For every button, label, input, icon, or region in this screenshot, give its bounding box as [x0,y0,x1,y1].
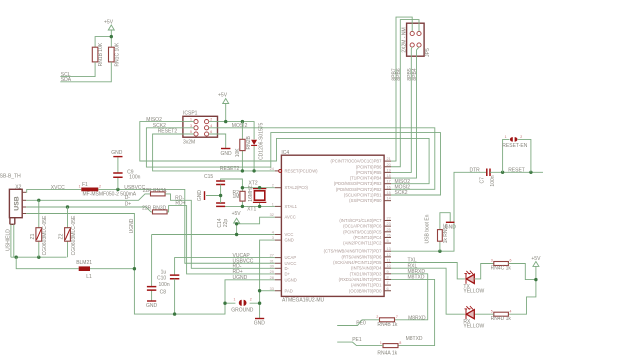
svg-text:16MHZ: 16MHZ [248,185,254,201]
varistor Z1 CG0603MLC-05E [30,200,48,257]
svg-text:22: 22 [387,217,391,221]
svg-text:14: 14 [387,197,391,201]
junction PAD/GND vertical [258,289,261,292]
fuse F1 MF-MSMF050-2 [79,182,137,198]
pin AVCC 32 [270,213,296,220]
pin PB4 18 [350,174,391,181]
svg-text:D-: D- [125,195,131,201]
svg-text:3x2M: 3x2M [183,140,195,146]
junction VCC at +5V stem [235,233,238,236]
pin PAD 33 [270,287,293,294]
pin PB6 20 [356,163,391,170]
svg-text:(T1/PCINT4)PB4: (T1/PCINT4)PB4 [350,176,382,181]
svg-text:GROUND: GROUND [231,308,254,314]
svg-text:1M: 1M [233,194,240,200]
svg-text:(INT4/ICP1/CLK0)PC7: (INT4/ICP1/CLK0)PC7 [339,218,382,223]
svg-text:YELLOW: YELLOW [463,324,484,330]
wire shield rail [11,256,67,258]
svg-text:19: 19 [387,168,391,172]
junction UGND at jumper [223,302,226,305]
ground (below ICSP) [221,149,233,157]
+5V supply symbol (AVCC/VCC) [232,211,242,234]
svg-text:+5V: +5V [104,20,114,26]
svg-text:CG0603MLC-05E: CG0603MLC-05E [71,215,77,255]
svg-text:(RXD1/AIN1/INT2)PD2: (RXD1/AIN1/INT2)PD2 [339,277,382,282]
svg-text:JP5: JP5 [425,48,431,57]
svg-text:8PB4: 8PB4 [412,68,418,80]
svg-text:12: 12 [387,253,391,257]
svg-text:PAD: PAD [285,288,293,293]
junction caps GND [219,194,222,197]
resistor RN4D 1k [491,309,512,322]
svg-text:2: 2 [376,315,378,319]
svg-text:30: 30 [270,264,274,268]
resistor R2 1M [233,188,246,207]
wire TX led to RN4C [474,264,494,279]
wire 8PB7 (JP5 to IC PB7) [391,17,412,161]
junction XTAL1 at R2 [241,205,244,208]
svg-text:C15: C15 [204,174,213,180]
junction +5V at arrow [224,120,227,123]
wire M8TXD (IC PD2 to RN4A) [391,279,435,345]
svg-text:15: 15 [387,191,391,195]
wire RESET (C7 to RESET-EN legs) [490,168,543,174]
svg-text:(AIN2/PCINT11)PC2: (AIN2/PCINT11)PC2 [343,241,382,246]
diode CD1206-S01575 [251,122,264,170]
svg-text:10: 10 [387,264,391,268]
svg-text:RN1B 10K: RN1B 10K [98,42,104,66]
svg-text:+5V: +5V [218,92,228,98]
svg-text:DTR: DTR [470,168,481,174]
varistor Z2 CG0603MLC-05E [59,207,77,257]
resistor RN5E 1k (HWB pulldown) [438,213,451,252]
svg-text:UGND: UGND [129,218,135,233]
svg-text:VUCAP: VUCAP [233,253,251,259]
svg-text:RESET-EN: RESET-EN [502,143,527,149]
svg-text:(PCINT6)PB6: (PCINT6)PB6 [356,164,382,169]
wire cap midpoint to GND [206,185,221,204]
svg-text:13: 13 [387,247,391,251]
junction USBVCC at C9 [116,188,119,191]
capacitor C7 100n (DTR-RESET) [480,169,496,187]
svg-text:5: 5 [491,309,493,313]
capacitor C8 100n (VCC decoupling) [147,235,170,302]
junction RESET2 at diode [252,169,255,172]
node PE0 [337,320,379,327]
junction +5V node [110,35,113,38]
svg-text:CD1206-S01575: CD1206-S01575 [258,122,264,159]
svg-text:33: 33 [270,287,274,291]
svg-text:GND: GND [146,303,158,309]
wire UGND (USB pin4 down, rail, up to IC pin28) [22,214,275,315]
wire D- (USB pin2 to RN3A) [22,194,150,201]
svg-text:6: 6 [210,130,212,134]
wire SCK2 (ICSP pin3 west, down, east to over-IC row) [146,123,440,195]
svg-text:GND: GND [197,190,203,202]
svg-text:29: 29 [270,270,274,274]
resistor RN1C 10K [109,42,121,67]
svg-text:CG0603MLC-05E: CG0603MLC-05E [42,215,48,255]
svg-text:4: 4 [272,231,274,235]
junction RESET at right leg [529,171,532,174]
pin VCC 4 [272,231,294,238]
resistor RN4A 1k [377,341,401,357]
svg-text:(OC1A/PCINT8)PC6: (OC1A/PCINT8)PC6 [343,224,382,229]
svg-text:3: 3 [491,259,493,263]
svg-text:MOSI2: MOSI2 [232,123,248,129]
svg-text:F1: F1 [82,182,88,188]
svg-text:RN4D 1k: RN4D 1k [491,316,512,322]
svg-text:+5V: +5V [531,256,541,262]
svg-text:D+: D+ [125,202,132,208]
svg-text:USB boot En: USB boot En [425,214,431,243]
wire XTAL1 net (IC pin1 to crystal / R2 / C14) [221,205,275,207]
svg-text:1: 1 [190,118,192,122]
svg-text:100n: 100n [159,282,170,288]
svg-text:25: 25 [387,228,391,232]
svg-text:SDA: SDA [61,77,72,83]
svg-text:2X2M - NM: 2X2M - NM [401,27,407,52]
junction XTAL2 at crystal [258,186,261,189]
wire GND pin3 down to ground bar [260,240,275,318]
junction +5V at RN2B [241,120,244,123]
svg-text:23: 23 [387,222,391,226]
resistor RN4B 1k [376,315,398,328]
resistor RN1B 10K [92,42,104,66]
svg-text:26: 26 [387,233,391,237]
svg-text:L1: L1 [86,274,92,280]
svg-text:2: 2 [99,185,101,189]
wire PAD (pin33) [260,290,275,292]
svg-text:GND: GND [221,151,233,157]
wire RN4C to +5V stem [508,264,536,280]
svg-text:RD+: RD+ [175,201,185,207]
pin PD1 7 [351,281,391,288]
pin PD2 8 / net M8TXD [339,275,425,282]
svg-text:(PCINT5)PB5: (PCINT5)PB5 [356,170,382,175]
capacitor C15 22p [204,174,225,185]
svg-text:22p: 22p [223,219,229,228]
svg-text:5: 5 [190,130,192,134]
svg-text:SCK2: SCK2 [395,190,408,196]
pin RESET(PC1/DW) 24 [270,167,318,174]
ground (below C8) [146,301,158,309]
svg-text:8PB6: 8PB6 [396,68,402,80]
svg-text:11: 11 [387,259,391,263]
svg-text:C10: C10 [157,275,166,281]
svg-text:1: 1 [234,298,236,302]
node PE1 [337,337,383,346]
solder jumper GROUND [225,298,260,314]
svg-text:6: 6 [387,287,389,291]
svg-text:RN1C 10K: RN1C 10K [114,42,120,67]
pin PD4 10 / net RXL [351,263,417,270]
pin XTAL1 1 [272,202,298,209]
junction UGND at L1 [133,267,136,270]
pin PC2 5 [343,239,391,246]
svg-text:18: 18 [387,174,391,178]
svg-text:BLM21: BLM21 [76,260,92,266]
pin PD6 12 [342,253,391,260]
svg-text:31: 31 [270,259,274,263]
svg-text:XVCC: XVCC [51,185,65,191]
svg-text:GND: GND [285,238,294,243]
pin PC7 22 [339,217,391,224]
svg-text:RESET: RESET [508,168,525,174]
ground (crystal caps, rotated) [197,190,204,202]
pin PB7 21 [331,157,391,164]
wire XTAL2 net (IC pin2 to crystal / R2 / C15) [221,179,275,188]
svg-text:24: 24 [270,167,274,171]
svg-text:USB: USB [13,196,20,210]
svg-text:(CTS/HWB/AIN6/TO/INT7)PD7: (CTS/HWB/AIN6/TO/INT7)PD7 [324,249,383,254]
wire USBVCC (F1 to corner, down to IC UVCC) [98,185,274,265]
svg-text:21: 21 [387,157,391,161]
pin UVCC 31 [270,259,297,266]
capacitor C14 22p [216,203,229,228]
node SDA [60,62,111,83]
svg-text:(SCLK/PCINT1)PB1: (SCLK/PCINT1)PB1 [344,193,382,198]
wire D+ (USB pin3 to RN3D) [22,202,152,212]
pin D+ 29 [270,270,291,277]
svg-text:2: 2 [210,118,212,122]
wire XUSB (USB pin1 to fuse F1) [22,185,81,193]
connector ICSP1 3x2M [183,111,218,146]
wire +5V to RN1B/RN1C tops [95,37,111,48]
pin PC6 23 [343,222,391,229]
pin PB5 19 [356,168,391,175]
resistor RN3D 22R [142,205,167,214]
svg-text:RN4C 1k: RN4C 1k [491,265,512,271]
crystal XT1 16MHZ [247,185,266,212]
svg-text:(XCK/AIN4/PCINT12)PD5: (XCK/AIN4/PCINT12)PD5 [333,260,382,265]
svg-text:1: 1 [272,202,274,206]
wire RXL (RX led to IC PD4) [391,268,465,314]
wire VUCAP (IC pin27 to C10) [175,253,275,275]
pin D- 30 [270,264,290,271]
svg-text:RN4B 1k: RN4B 1k [377,322,398,328]
pin PD0 6 [349,287,391,294]
svg-text:UGND: UGND [285,277,297,282]
solder jumper RESET-EN [502,135,531,172]
svg-text:3: 3 [272,236,274,240]
svg-text:RESET(PC1/DW): RESET(PC1/DW) [285,168,319,173]
svg-text:7: 7 [396,315,398,319]
svg-text:100n: 100n [129,175,140,181]
ground (above C9, flipped) [111,150,123,157]
svg-text:ATMEGA16U2-MU: ATMEGA16U2-MU [282,298,325,304]
svg-text:20: 20 [387,163,391,167]
svg-text:1: 1 [380,341,382,345]
svg-text:UCAP: UCAP [285,255,297,260]
svg-text:AVCC: AVCC [285,215,296,220]
wire MISO2 (ICSP pin1 west, down, east to over-IC row) [140,117,429,184]
wire ICSP pin6 to GND [209,134,226,149]
capacitor C9 100n (USBVCC decoupling, GND above) [113,157,140,189]
pin GND 3 [272,236,294,243]
node SCL [60,62,95,78]
svg-text:27: 27 [270,254,274,258]
wire MOSI2 (ICSP pin4 east over IC to PB2) [209,123,435,189]
pin UCAP 27 [270,254,297,261]
svg-text:(INT5/AIN3)PD4: (INT5/AIN3)PD4 [351,266,382,271]
junction PD7 at 1k resistor [438,250,441,253]
svg-text:8: 8 [399,341,401,345]
svg-text:M8TXD: M8TXD [406,336,423,342]
svg-text:D-: D- [285,266,290,271]
svg-text:(RTS/AIN5/INT6)PD6: (RTS/AIN5/INT6)PD6 [342,254,383,259]
pin PB2 16 / net MOSI2 [336,185,410,192]
svg-text:(TXD1/INT3)PD3: (TXD1/INT3)PD3 [350,271,383,276]
junction RESET at left leg [501,171,504,174]
wire RN4D to RX led [474,313,494,315]
junction GND vertical at jumper pad2 [258,302,261,305]
pin XTAL2(PC0) 2 [272,184,309,191]
svg-text:+5V: +5V [232,211,242,217]
svg-text:(PDI/MOSI/PCINT2)PB2: (PDI/MOSI/PCINT2)PB2 [336,187,382,192]
svg-text:XTAL1: XTAL1 [285,204,298,209]
junction XTAL1 at crystal [258,205,261,208]
svg-text:4: 4 [210,124,212,128]
svg-text:5: 5 [387,239,389,243]
op-amp IC4 body [281,150,384,304]
pin PD7 13 [324,247,391,254]
wire 8PB4 (JP5 to IC PB4) [391,47,419,178]
svg-text:RN4A 1k: RN4A 1k [377,351,397,357]
svg-text:8: 8 [387,275,389,279]
svg-text:7: 7 [387,281,389,285]
pin PB3 17 / net MISO2 [334,179,410,186]
svg-text:YELLOW: YELLOW [463,289,484,295]
junction UGND rail at C10 [173,312,176,315]
svg-text:4: 4 [510,309,512,313]
junction XTAL2 at R2 [241,186,244,189]
pin PC4 26 [353,233,391,240]
svg-text:XT1: XT1 [247,206,256,212]
LED RX YELLOW [463,306,484,330]
ground (IC GND/PAD) [254,319,266,327]
pin PD5 11 / net TXL [333,258,417,265]
svg-text:GND: GND [111,150,123,156]
svg-text:6: 6 [510,259,512,263]
svg-text:C8: C8 [160,290,167,296]
wire 8PB5 (JP5 to IC PB5) [391,47,413,172]
capacitor C10 1u [157,270,179,315]
svg-text:28: 28 [270,276,274,280]
pin PB0 14 [349,197,391,204]
svg-text:10K: 10K [235,148,241,158]
svg-text:(PCINT10)PC4: (PCINT10)PC4 [353,235,382,240]
+5V supply symbol (ICSP) [218,92,229,121]
wire +5V row (ICSP pin2 to diode/pullup) [209,122,254,140]
svg-text:16: 16 [387,185,391,189]
+5V supply symbol (LEDs) [508,256,541,314]
pin PD3 9 / net M8RXD [350,269,426,276]
pin PC5 25 [343,228,391,235]
svg-text:UGND: UGND [233,275,248,281]
svg-text:2: 2 [520,135,522,139]
svg-text:(OC0B/INT0)PD0: (OC0B/INT0)PD0 [349,288,382,293]
wire RESET2 (ICSP pin5 west, down, east to IC pin24) [153,129,275,173]
svg-text:M8RXD: M8RXD [408,315,426,321]
svg-text:(AIN0/INT1)PD1: (AIN0/INT1)PD1 [351,283,382,288]
junction RESET2 at RN2B [241,169,244,172]
junction shield rail at Z1 [37,256,40,259]
connector X2 USB [9,184,22,224]
pin UGND 28 [270,276,297,283]
wire USB shield pins down to shield rail [11,224,14,257]
svg-text:RN2B: RN2B [246,135,252,149]
svg-text:XTAL2(PC0): XTAL2(PC0) [285,185,309,190]
svg-text:Z1: Z1 [30,233,36,239]
wire TXL (IC PD5 to TX led) [391,263,465,279]
junction shield rail at L1 [15,256,18,259]
svg-text:(PDO/MISO/PCINT3)PB3: (PDO/MISO/PCINT3)PB3 [334,181,382,186]
svg-text:1: 1 [79,185,81,189]
svg-text:C7: C7 [480,177,486,184]
svg-text:PE1: PE1 [352,337,362,343]
wire RD- (RN3A to IC D-) [165,194,275,270]
resistor RN2B 10K (pullup on RESET2) [235,122,252,171]
resistor RN4C 1k [491,259,512,272]
svg-text:USB-B_TH: USB-B_TH [0,173,21,179]
ferrite L1 BLM21 [16,257,134,280]
wire DTR (PD7 row to cap C7) [391,168,486,252]
+5V supply symbol (RN1 pullups) [104,20,114,37]
wire 8PB6 (JP5 to IC PB6) [391,20,419,167]
resistor RN3A 22R [143,188,168,196]
svg-text:2: 2 [250,298,252,302]
svg-text:Z2: Z2 [59,233,65,239]
junction +5V at TX branch [534,278,537,281]
LED TX YELLOW [463,271,484,295]
svg-text:GND: GND [445,224,457,230]
svg-text:RESET2: RESET2 [220,166,240,172]
wire AVCC (IC pin32 to +5V stem) [237,217,275,224]
junction +5V stem AVCC tap [235,222,238,225]
pin PB1 15 / net SCK2 [344,190,408,197]
junction D- at Z1 [37,199,40,202]
svg-text:100n: 100n [490,175,496,186]
svg-text:D+: D+ [285,271,291,276]
wire RD+ (RN3D to IC D+) [167,201,275,275]
wire M8RXD (IC PD3 to RN4B) [391,274,428,322]
svg-text:(SS/PCINT0)PB0: (SS/PCINT0)PB0 [349,198,382,203]
svg-text:2: 2 [272,184,274,188]
ground (USB boot En) [445,222,457,230]
svg-text:GND: GND [254,321,266,327]
svg-text:32: 32 [270,213,274,217]
junction D+ at Z2 [66,205,69,208]
svg-text:3: 3 [190,124,192,128]
svg-text:(PCINT9/OC1B)PC5: (PCINT9/OC1B)PC5 [343,229,382,234]
svg-text:9: 9 [387,270,389,274]
svg-text:VCC: VCC [285,232,294,237]
connector JP5 2x2M-NM [401,23,431,57]
wire VCC row (C8 to IC pin4) [152,234,275,236]
svg-text:(PCINT7/OC0A/OC1C)PB7: (PCINT7/OC0A/OC1C)PB7 [331,159,383,164]
svg-text:1: 1 [505,135,507,139]
svg-text:17: 17 [387,180,391,184]
